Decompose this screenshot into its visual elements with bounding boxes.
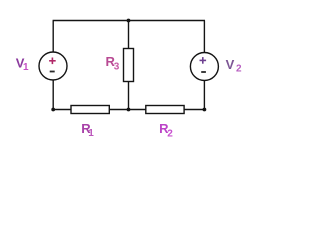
label V2: [226, 57, 242, 75]
node junction bottom right: [203, 108, 207, 112]
voltage source V2 circle: [190, 53, 218, 81]
wire top horizontal: [53, 20, 205, 22]
label R2: [159, 121, 173, 140]
V1 plus sign: [49, 58, 56, 65]
V2 minus sign: [201, 71, 206, 73]
svg-text:2: 2: [236, 64, 242, 75]
resistor R3 body: [124, 49, 134, 82]
voltage source V1 circle: [39, 52, 67, 80]
svg-text:1: 1: [23, 62, 29, 73]
resistor R1 body: [71, 106, 109, 114]
svg-text:3: 3: [114, 61, 120, 72]
wire right vertical upper: [203, 21, 205, 53]
node junction bottom left: [51, 108, 55, 112]
svg-text:V: V: [226, 57, 235, 72]
wire bottom horizontal: [53, 109, 204, 111]
wire right vertical lower: [203, 80, 205, 109]
node junction top middle: [127, 19, 131, 23]
node junction bottom middle: [127, 108, 131, 112]
wire left vertical upper: [52, 21, 54, 53]
V2 plus sign: [200, 57, 207, 64]
svg-text:2: 2: [167, 129, 173, 140]
label R1: [81, 121, 94, 139]
wire middle vertical: [128, 21, 130, 110]
svg-text:1: 1: [88, 128, 94, 139]
V1 minus sign: [50, 71, 55, 73]
label R3: [106, 54, 120, 73]
resistor R2 body: [146, 106, 184, 114]
wire left vertical lower: [52, 80, 54, 110]
label V1: [16, 55, 29, 73]
